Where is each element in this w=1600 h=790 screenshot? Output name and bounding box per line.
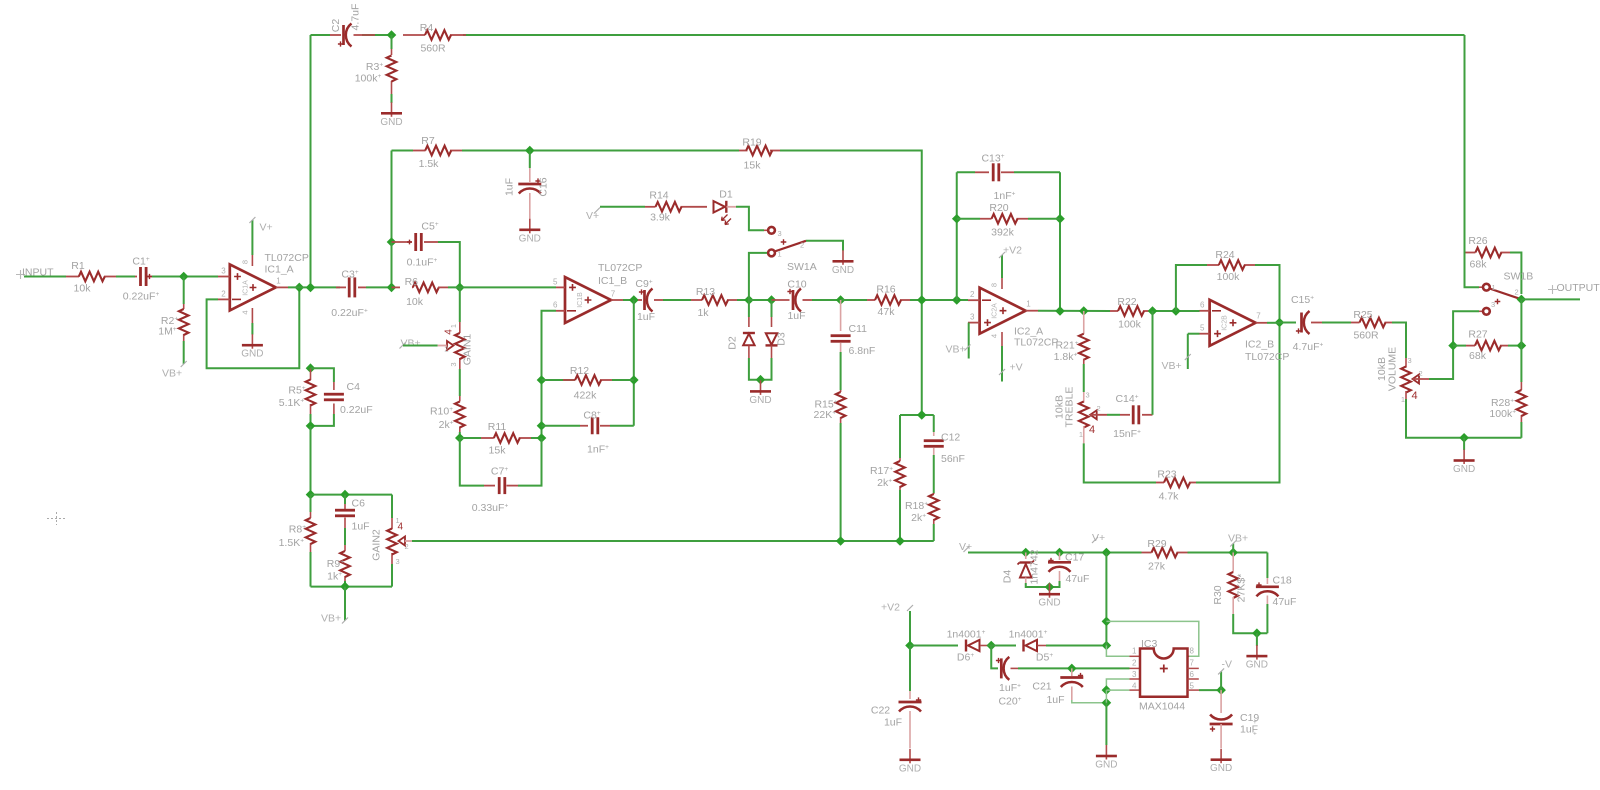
svg-text:5: 5 [1190, 682, 1195, 691]
wire diode rail to D6 [910, 645, 958, 647]
svg-text:R1: R1 [71, 260, 85, 272]
junction C12 branch [917, 410, 927, 420]
supply V+ at R14 [594, 208, 600, 214]
junction +V2 diode rail [905, 641, 915, 651]
wire R9 bottom to rail [344, 581, 346, 587]
svg-text:C4: C4 [347, 381, 361, 393]
svg-text:V+: V+ [1092, 532, 1105, 544]
supply +V2 flag [907, 605, 913, 611]
svg-text:0.33uF+: 0.33uF+ [472, 502, 509, 514]
switch SW1A [768, 227, 775, 234]
svg-text:GND: GND [1210, 763, 1232, 774]
capacitor C18 [1266, 553, 1268, 579]
ground below R30 C18 [1256, 633, 1258, 646]
resistor R5 [310, 368, 312, 380]
resistor R2 [183, 304, 185, 309]
wire R23 to output column [1196, 323, 1280, 483]
resistor R12 [542, 379, 576, 381]
resistor R26 bypass [1465, 252, 1476, 254]
op-amp IC2_A [980, 288, 1026, 334]
svg-text:3: 3 [1132, 670, 1137, 679]
resistor R18 [933, 493, 935, 494]
svg-text:7: 7 [611, 290, 616, 299]
wire C1 to IC1_A pin3 [152, 276, 218, 278]
svg-text:C12: C12 [941, 432, 960, 444]
svg-text:TL072CP: TL072CP [1245, 351, 1289, 363]
resistor R25 [1351, 322, 1360, 324]
input pin INPUT [16, 270, 25, 279]
wire C15 to R25 [1322, 322, 1351, 324]
junction pin5 node [1216, 685, 1226, 695]
svg-text:1n4742: 1n4742 [1029, 549, 1041, 584]
diode D3 [771, 300, 773, 317]
junction VB+ bottom rail [340, 582, 350, 592]
wire D5 to V+ column [1046, 645, 1106, 647]
svg-text:4: 4 [1089, 424, 1095, 436]
svg-text:8: 8 [1190, 647, 1195, 656]
svg-text:10k: 10k [406, 296, 424, 308]
wire V+ power rail [968, 552, 1142, 554]
capacitor C9 [638, 299, 642, 301]
capacitor C15 [1302, 311, 1310, 334]
supply +V2 above IC2_A [1001, 255, 1003, 278]
svg-text:D2: D2 [727, 336, 739, 350]
IC3 MAX1044 [1140, 649, 1188, 697]
wire V+ column [1105, 553, 1107, 646]
svg-text:IC1_B: IC1_B [598, 275, 627, 287]
resistor R13 [691, 299, 702, 301]
wire C4 bottom to junction [311, 414, 334, 426]
junction R12 right [629, 375, 639, 385]
junction D2 tap [744, 295, 754, 305]
svg-text:IC3: IC3 [1141, 638, 1158, 650]
resistor R21 [1083, 311, 1085, 334]
junction R27 left [1448, 341, 1458, 351]
svg-text:3: 3 [1086, 391, 1090, 400]
wire R7 feedback rail [392, 150, 414, 152]
wire SW1A common to ground [806, 241, 843, 251]
wire C11 to R15 [840, 352, 842, 390]
svg-text:68k: 68k [1470, 259, 1488, 271]
wire pin2 column up to C13 [956, 172, 958, 300]
svg-text:VB+: VB+ [1162, 360, 1182, 372]
svg-text:V+: V+ [959, 541, 972, 553]
svg-text:1: 1 [1026, 300, 1031, 309]
svg-text:47uF: 47uF [1066, 573, 1090, 585]
junction diode ground [756, 375, 766, 385]
junction C11 tap [836, 295, 846, 305]
svg-text:R25: R25 [1353, 309, 1372, 321]
op-amp IC1_A [230, 264, 276, 310]
supply -V flag [1220, 671, 1222, 690]
capacitor C17 [1059, 553, 1061, 561]
junction below R5 [306, 421, 316, 431]
junction R20 left [952, 214, 962, 224]
wire column down to R6 [391, 242, 393, 287]
svg-text:C10: C10 [787, 279, 806, 291]
svg-text:560R: 560R [420, 43, 446, 55]
svg-text:1k: 1k [697, 307, 709, 319]
svg-text:R7: R7 [421, 135, 435, 147]
junction R11 left [455, 433, 465, 443]
wire R17 leg [899, 415, 901, 458]
svg-text:2: 2 [970, 290, 975, 299]
svg-text:OUTPUT: OUTPUT [1557, 282, 1600, 294]
svg-text:R12: R12 [570, 365, 589, 377]
wire R17 to rail [899, 490, 901, 541]
resistor R19 [739, 150, 748, 152]
wire R22 to IC2_B pin6 [1151, 310, 1200, 312]
svg-text:4: 4 [444, 329, 455, 335]
svg-text:R30: R30 [1212, 585, 1224, 604]
resistor R4 [403, 34, 425, 36]
svg-text:R26: R26 [1468, 235, 1487, 247]
wire C12 to R18 [933, 455, 935, 493]
junction ground rail [1459, 433, 1469, 443]
svg-text:47uF: 47uF [1273, 596, 1297, 608]
svg-text:1: 1 [1132, 647, 1137, 656]
wire VB+ to GAIN1 wiper [403, 345, 438, 347]
wire pin5 to C19 [1188, 689, 1200, 691]
svg-text:GND: GND [519, 233, 541, 244]
wire C12 branch top [900, 414, 934, 416]
junction diode rail V+ column [1102, 641, 1112, 651]
svg-text:6.8nF: 6.8nF [849, 345, 876, 357]
output pin OUTPUT [1548, 285, 1557, 294]
wire D1 to SW1A throw 3 [736, 207, 764, 231]
svg-text:C2: C2 [330, 19, 342, 33]
capacitor C20 [991, 646, 998, 669]
ground below C19 [1210, 749, 1232, 775]
svg-text:8: 8 [990, 283, 999, 287]
svg-text:R6: R6 [405, 276, 419, 288]
junction R6 right [455, 283, 465, 293]
wire gain network bottom rail [311, 586, 393, 588]
svg-text:0.22uF+: 0.22uF+ [331, 307, 368, 319]
wire R1 to C1 [116, 276, 135, 278]
capacitor C5 [392, 241, 413, 243]
supply V+ above IC1_A [251, 220, 253, 255]
wire R25 to VOLUME [1392, 323, 1406, 359]
wire top-left vertical down to IC1_A output column [310, 35, 312, 288]
svg-text:27K$*: 27K$* [1236, 574, 1248, 603]
ground at IC1_A pin4 [251, 323, 253, 335]
resistor R29 [1142, 552, 1152, 554]
capacitor C12 [933, 415, 935, 432]
wire GAIN1 to R10 [459, 369, 461, 396]
svg-text:3: 3 [449, 362, 458, 366]
wire ground column [1105, 690, 1107, 703]
svg-text:1uF: 1uF [1046, 694, 1064, 706]
svg-text:C18: C18 [1273, 575, 1292, 587]
wire down to gain network [310, 426, 312, 495]
wire pin3 route [1106, 679, 1129, 690]
wire R6 junction to IC1_B pin5 [448, 286, 556, 288]
svg-text:7: 7 [1190, 659, 1195, 668]
wire R15 to bottom rail [840, 423, 842, 541]
junction C21 ground node [1102, 698, 1112, 708]
svg-text:GND: GND [380, 117, 402, 128]
wire pin8 route [1106, 621, 1198, 656]
svg-text:GND: GND [1453, 464, 1475, 475]
resistor R17 [899, 458, 901, 461]
wire C3 to R6 column [366, 286, 390, 288]
svg-text:TL072CP: TL072CP [598, 262, 642, 274]
capacitor C1 [135, 276, 137, 278]
supply VB+ at IC2_B pin5 [1188, 333, 1200, 335]
svg-text:4.7uF+: 4.7uF+ [1293, 341, 1324, 353]
junction pin8 route [1102, 617, 1112, 627]
supply V+ rail start [964, 546, 970, 552]
wire pin1 route [1106, 646, 1129, 657]
svg-text:100k+: 100k+ [1489, 408, 1516, 420]
switch SW1B [1483, 284, 1490, 291]
wire R18 to rail end [933, 524, 935, 541]
svg-text:VB+: VB+ [946, 344, 966, 356]
svg-text:1uF: 1uF [504, 178, 516, 196]
resistor R11 [460, 437, 481, 439]
svg-text:5: 5 [1200, 324, 1205, 333]
junction R12 left [537, 375, 547, 385]
svg-text:GND: GND [832, 265, 854, 276]
svg-text:D1: D1 [719, 189, 733, 201]
svg-text:GAIN1: GAIN1 [462, 334, 474, 366]
svg-text:1uF: 1uF [787, 310, 805, 322]
zener diode D4 1N4742 [1025, 553, 1027, 560]
svg-text:2: 2 [1419, 369, 1423, 378]
wire down to GAIN1 [459, 287, 461, 322]
svg-text:7: 7 [1256, 312, 1261, 321]
supply VB+ below R2 [183, 341, 185, 364]
diode D6 1n4001 [966, 640, 980, 652]
diode D5 1n4001 [1024, 640, 1038, 652]
svg-text:2: 2 [800, 241, 804, 250]
svg-text:422k: 422k [574, 390, 598, 402]
svg-text:GND: GND [1246, 660, 1268, 671]
wire C9 to R13 [663, 299, 691, 301]
ground at SW1A [832, 250, 854, 275]
wire C10 to C11 junction [812, 299, 841, 301]
svg-text:C16: C16 [538, 177, 550, 196]
svg-text:1n4001+: 1n4001+ [1009, 629, 1048, 641]
svg-text:SW1A: SW1A [787, 261, 817, 273]
supply +V below IC2_A [1001, 346, 1003, 382]
potentiometer VOLUME [1405, 358, 1407, 368]
svg-text:3: 3 [970, 313, 975, 322]
svg-text:6: 6 [1200, 301, 1205, 310]
svg-text:2: 2 [405, 542, 409, 551]
junction IC2_A pin2 column [952, 295, 962, 305]
junction C17 tap [1055, 548, 1065, 558]
capacitor C8 [542, 425, 581, 427]
svg-text:5: 5 [553, 278, 558, 287]
svg-text:56nF: 56nF [941, 453, 965, 465]
junction R5 top tap [306, 363, 316, 373]
svg-text:560R: 560R [1353, 330, 1379, 342]
svg-text:4: 4 [990, 334, 999, 338]
junction vertical feedback column crossing [917, 295, 927, 305]
pin6 stub [1188, 678, 1199, 680]
capacitor C14 [1132, 405, 1140, 424]
svg-text:IC2B: IC2B [1222, 315, 1229, 331]
svg-text:1: 1 [449, 324, 458, 328]
svg-text:R22: R22 [1117, 296, 1136, 308]
svg-text:4: 4 [1412, 390, 1418, 402]
junction SW1B common [1517, 295, 1527, 305]
ground below charge pump [1095, 745, 1117, 771]
wire R16 to IC2_A pin2 [910, 299, 968, 301]
junction R24 column [1171, 306, 1181, 316]
svg-text:GND: GND [1038, 598, 1060, 609]
junction output to C13 column [1055, 306, 1065, 316]
wire R13 to D2 junction [737, 299, 749, 301]
svg-text:3: 3 [1408, 356, 1412, 365]
junction power ground [1045, 582, 1055, 592]
junction R27 right [1517, 341, 1527, 351]
ground below diodes [749, 380, 771, 406]
junction R6 left [387, 283, 397, 293]
wire R26 left leg to SW1B pole [1464, 35, 1466, 253]
resistor R27 [1453, 345, 1466, 347]
sheet origin cross [47, 512, 66, 525]
svg-text:D4: D4 [1002, 570, 1014, 584]
svg-text:68k: 68k [1469, 350, 1487, 362]
svg-text:GAIN2: GAIN2 [371, 529, 383, 561]
svg-text:R29: R29 [1147, 538, 1166, 550]
wire D4 C17 ground rail [1026, 581, 1060, 587]
svg-text:1: 1 [778, 250, 782, 259]
svg-text:4.7uF: 4.7uF [350, 4, 362, 31]
svg-text:1.5k: 1.5k [419, 158, 440, 170]
junction feedback tap at output [294, 283, 304, 293]
wire between diodes [749, 299, 772, 301]
svg-text:4: 4 [1132, 682, 1137, 691]
junction D4 tap [1021, 548, 1031, 558]
capacitor C19 [1220, 690, 1222, 713]
capacitor C2 [330, 34, 341, 36]
ground below R3 [391, 94, 393, 103]
svg-text:3: 3 [396, 557, 400, 566]
svg-text:4.7k: 4.7k [1159, 491, 1180, 503]
svg-text:15nF+: 15nF+ [1113, 428, 1141, 440]
svg-text:2: 2 [221, 290, 226, 299]
svg-text:C21: C21 [1032, 681, 1051, 693]
capacitor C22 [909, 646, 911, 692]
wire SW1A pole 1 down to main line [749, 253, 767, 300]
resistor R1 [66, 276, 79, 278]
resistor R30 [1232, 553, 1234, 573]
svg-text:IC1A: IC1A [243, 280, 250, 296]
svg-text:+V2: +V2 [881, 602, 900, 614]
capacitor C6 [344, 495, 346, 504]
diode D2 [748, 300, 750, 317]
svg-text:0.22uF+: 0.22uF+ [123, 291, 160, 303]
svg-text:TL072CP: TL072CP [265, 252, 309, 264]
wire vertical C5/R7 column [391, 151, 393, 243]
wiper wire VOLUME to SW1B throw 3 [1413, 378, 1430, 380]
resistor R22 [1110, 310, 1118, 312]
junction pin4 node [1102, 685, 1112, 695]
wire diode bottoms [749, 358, 772, 380]
wire V+ to R14 [600, 206, 645, 208]
capacitor C16 [529, 151, 531, 169]
junction C16 tap [525, 146, 535, 156]
svg-text:3: 3 [221, 267, 226, 276]
svg-text:3: 3 [778, 229, 782, 238]
wire VOLUME bottom to ground rail [1406, 399, 1521, 438]
wire R21 to TREBLE [1083, 364, 1085, 392]
wire R5 to lower junction [310, 414, 312, 426]
svg-text:GND: GND [1095, 760, 1117, 771]
resistor R8 [310, 495, 312, 512]
svg-text:+V: +V [1010, 362, 1023, 374]
wiper wire TREBLE to C14 [1090, 414, 1107, 416]
wire IC1_B output [623, 299, 638, 301]
wire IC1_A feedback output to pin2 [207, 287, 300, 368]
svg-text:IC2_B: IC2_B [1245, 339, 1274, 351]
capacitor C3 [336, 286, 346, 288]
op-amp IC1_B [565, 277, 611, 323]
resistor R3 [391, 35, 393, 49]
junction R3 tap on top rail [387, 30, 397, 40]
wire output [1521, 298, 1580, 300]
wire C11 junction to R16 [841, 299, 867, 301]
svg-text:IC1B: IC1B [577, 292, 584, 308]
svg-text:392k: 392k [991, 227, 1015, 239]
svg-text:4: 4 [398, 522, 404, 533]
wire output column down [633, 300, 635, 426]
svg-text:C22: C22 [871, 705, 890, 717]
svg-text:1n4001+: 1n4001+ [947, 629, 986, 641]
junction C5 top on column [387, 237, 397, 247]
wire IC1_B pin6 down [542, 311, 557, 438]
svg-text:SW1B: SW1B [1504, 271, 1534, 283]
wire C14 column up [1152, 311, 1154, 415]
wire R10 to junction [459, 432, 461, 438]
wire R24 to output column [1255, 265, 1280, 323]
junction IC1_B output [629, 295, 639, 305]
junction C14 column top [1148, 306, 1158, 316]
wire C5 to right column [438, 242, 460, 287]
junction D3 tap [767, 295, 777, 305]
svg-text:C17: C17 [1065, 552, 1084, 564]
pin7 stub [1188, 667, 1199, 669]
svg-text:100k+: 100k+ [355, 73, 382, 85]
junction VB+ node [1228, 548, 1238, 558]
svg-text:3.9k: 3.9k [650, 212, 671, 224]
wire top feedback rail from C2 to SW1B branch [311, 34, 331, 36]
resistor R16 [867, 299, 875, 301]
svg-text:IC2A: IC2A [992, 303, 999, 319]
svg-text:4: 4 [241, 310, 250, 314]
junction C6 top [340, 490, 350, 500]
svg-text:C6: C6 [352, 498, 366, 510]
supply VB+ at IC2_A pin3 [967, 322, 969, 324]
svg-text:TL072CP: TL072CP [1014, 337, 1058, 349]
svg-text:2: 2 [1132, 659, 1137, 668]
svg-text:3: 3 [1491, 300, 1495, 309]
svg-text:R14: R14 [649, 190, 668, 202]
wire input to R1 [24, 276, 66, 278]
resistor R7 [413, 150, 426, 152]
wire TREBLE bottom to R23 rail [1084, 443, 1156, 482]
wire C20 to pin2 [1018, 667, 1130, 669]
svg-text:100k: 100k [1118, 319, 1142, 331]
svg-text:1: 1 [1492, 283, 1496, 292]
svg-text:10k: 10k [74, 283, 92, 295]
op-amp IC2_B [1210, 300, 1256, 346]
resistor R6 [392, 286, 401, 288]
